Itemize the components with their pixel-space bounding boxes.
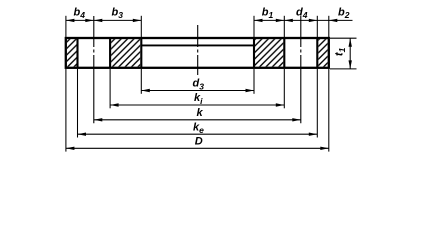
arrow d4 left <box>284 19 293 22</box>
label b2 <box>338 6 350 20</box>
extension line bore right (top) <box>253 16 255 37</box>
extension line D right (bottom) <box>328 69 330 152</box>
dimension line D <box>66 147 329 150</box>
svg-text:k: k <box>197 107 204 119</box>
extension line D left (bottom) <box>65 69 67 152</box>
arrow b1 right <box>276 19 285 22</box>
flange outline rectangle <box>66 38 329 68</box>
label t1 <box>334 47 348 56</box>
arrow b4 left <box>66 19 75 22</box>
dimension line ke <box>78 133 318 136</box>
svg-text:D: D <box>195 136 203 148</box>
dimension line ki <box>110 103 284 106</box>
extension line t1 bottom <box>330 68 357 70</box>
dimension line b4 b3 <box>66 19 141 21</box>
right bolt hole centerline <box>300 16 302 123</box>
bore right edge <box>253 38 255 68</box>
label ke <box>193 121 204 135</box>
dimension line k <box>94 118 301 121</box>
extension line right rim inner (top) <box>316 16 318 37</box>
extension line bore left (top) <box>140 16 142 37</box>
main axis centerline <box>197 25 199 75</box>
label b4 <box>74 6 86 20</box>
dimension line d3 <box>141 89 254 92</box>
flange ring section left rim (hatched) <box>67 39 77 67</box>
extension line ki left (bottom) <box>109 69 111 108</box>
arrow b3 right <box>133 19 142 22</box>
label d3 <box>193 78 205 92</box>
extension line ke left (bottom) <box>77 69 79 138</box>
arrow b1 left <box>254 19 263 22</box>
extension line ki right (bottom) <box>283 69 285 108</box>
right bolt hole inner edge <box>283 38 285 68</box>
extension line left outer edge (top) <box>65 16 67 37</box>
extension line bore right (bottom) <box>253 69 255 94</box>
flange ring section right rim (hatched) <box>318 39 327 67</box>
bore left edge <box>140 38 142 68</box>
dimension line b1 d4 b2 <box>254 19 353 21</box>
arrow b4 right <box>85 19 94 22</box>
extension line t1 top <box>330 37 357 39</box>
bore seat line <box>141 44 254 46</box>
left rim inner edge <box>76 38 78 68</box>
label b3 <box>112 6 124 20</box>
arrow b3 left <box>94 19 103 22</box>
label k <box>197 107 204 119</box>
label d4 <box>296 6 308 20</box>
left bolt hole inner edge <box>109 38 111 68</box>
left bolt hole centerline <box>93 16 95 123</box>
arrow d4 right <box>309 19 318 22</box>
dimension line t1 <box>349 38 352 69</box>
extension line ke right (bottom) <box>316 69 318 138</box>
label b1 <box>262 6 274 20</box>
flange ring section left bolt-web (hatched) <box>111 39 140 67</box>
flange ring section right bolt-web (hatched) <box>255 39 283 67</box>
extension line bore left (bottom) <box>140 69 142 94</box>
right rim inner edge <box>316 38 318 68</box>
extension line right web edge (top) <box>283 16 285 37</box>
label ki <box>194 92 203 106</box>
label D <box>195 136 203 148</box>
extension line right outer edge (top) <box>328 16 330 37</box>
arrow b2 outside <box>329 19 338 22</box>
